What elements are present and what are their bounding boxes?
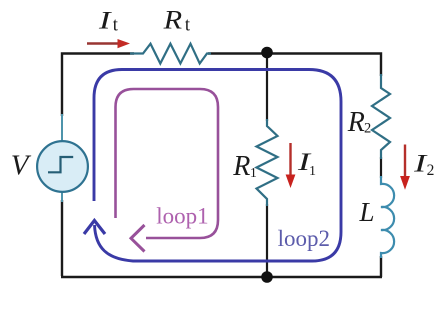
svg-text:t: t	[185, 16, 191, 36]
node bottom junction	[261, 271, 273, 283]
svg-text:I: I	[98, 6, 113, 35]
wire teal lead above source	[61, 114, 63, 142]
loop2 outline	[94, 70, 341, 262]
wire right middle black segment	[380, 157, 382, 178]
svg-text:t: t	[113, 15, 119, 35]
wire middle branch lower black segment	[266, 204, 268, 277]
wire right lower black segment	[380, 256, 382, 277]
wire middle branch upper black segment	[266, 53, 268, 121]
wire teal lead below source	[61, 190, 63, 202]
svg-text:R: R	[232, 151, 250, 182]
svg-text:2: 2	[364, 121, 371, 137]
resistor Rt	[130, 44, 211, 64]
svg-text:1: 1	[309, 164, 316, 179]
node top junction	[261, 47, 273, 59]
resistor R1	[257, 119, 278, 206]
source V step waveform	[48, 157, 73, 172]
svg-text:loop1: loop1	[156, 203, 208, 228]
svg-text:R: R	[347, 107, 365, 138]
svg-text:loop2: loop2	[278, 226, 330, 251]
resistor R2	[372, 74, 390, 159]
svg-text:1: 1	[250, 166, 257, 181]
svg-text:R: R	[162, 6, 182, 35]
source V circle	[37, 141, 88, 192]
svg-text:L: L	[359, 197, 375, 227]
wire top-left black segment	[62, 54, 134, 117]
wire top-right black segment	[208, 54, 381, 77]
loop1 arrowhead	[131, 225, 145, 252]
wire bottom black segment	[61, 276, 382, 278]
inductor L	[381, 176, 394, 258]
svg-text:2: 2	[427, 162, 435, 179]
wire left lower black segment	[61, 200, 63, 276]
current arrow It	[87, 42, 120, 45]
current arrow I1	[289, 143, 291, 177]
current arrow I2	[404, 145, 406, 179]
loop2 arrowhead	[84, 221, 105, 235]
loop1 outline	[116, 89, 219, 238]
